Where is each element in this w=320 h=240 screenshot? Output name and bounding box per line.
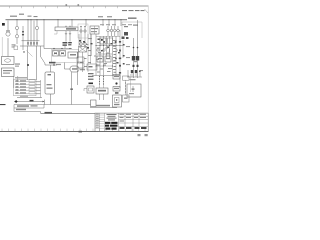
resistor ladder rail bottom — [20, 45, 44, 47]
right column fleck devices — [115, 41, 125, 74]
mid rail wire — [96, 45, 123, 47]
lamp DS0 circle — [6, 20, 10, 36]
cable table outline — [14, 79, 37, 96]
drop wire to panel c — [85, 20, 87, 26]
relay K1 tall box — [45, 72, 55, 94]
TB1 terminal dots — [66, 26, 71, 27]
diode CR1 — [22, 26, 24, 50]
cable list row 5 — [15, 92, 41, 94]
wire into motor — [7, 38, 9, 56]
meter label — [80, 69, 85, 71]
drop wire to terminal strip a — [57, 20, 59, 27]
device stack: tag — [115, 92, 119, 94]
contactor coil A — [53, 51, 59, 57]
conduit corner wire — [41, 100, 45, 114]
bus label text left — [10, 14, 112, 18]
left feeder vertical — [76, 52, 78, 85]
relay K1 coil wire — [50, 65, 52, 105]
trim marks below sheet — [138, 134, 148, 136]
cell texts right — [120, 114, 147, 122]
ladder cross rail upper — [96, 36, 120, 38]
fuse F2 — [110, 26, 113, 36]
terminal block TB0 — [14, 46, 18, 50]
panel riser wires — [81, 26, 85, 48]
bottom border ruler ticks — [2, 129, 145, 132]
fused drop S2 — [69, 31, 71, 42]
wire table vertical stub b — [17, 76, 19, 82]
dark fleck lower right — [117, 62, 119, 64]
drop wires right group — [103, 20, 121, 26]
aux contact box C — [87, 64, 97, 70]
contact CR2 — [97, 49, 117, 53]
stacked pin text CCC — [88, 73, 94, 80]
junction tick right — [70, 89, 73, 90]
title block middle rows — [119, 116, 149, 126]
conduit run labels — [16, 105, 38, 110]
bottom rail label — [45, 112, 53, 114]
aux box — [108, 38, 113, 44]
enclosure content marks — [124, 25, 138, 28]
contactor top wire — [52, 48, 72, 49]
drop wire 2 — [27, 20, 29, 46]
drop wire to lamp DS2 — [35, 20, 38, 46]
device stack: indicator dot — [115, 82, 117, 84]
device stack: selector box — [113, 75, 120, 80]
right riser wire b — [137, 20, 139, 78]
wire table vertical stub a — [13, 76, 15, 88]
shield wire row — [14, 100, 44, 103]
drop wire 4 — [33, 20, 35, 46]
overload block — [68, 52, 78, 58]
ladder speckle flecks — [79, 39, 120, 54]
wire left drop a — [27, 46, 29, 80]
node tag square — [2, 23, 5, 26]
ladder element marks — [27, 42, 37, 45]
control station CS2 box — [127, 84, 141, 97]
revision table entries — [96, 114, 99, 128]
wire label — [49, 62, 56, 64]
panel enclosure outline — [78, 24, 88, 38]
right dashed enclosure — [122, 22, 142, 38]
bus label text right — [128, 17, 137, 19]
pushbutton station risers — [128, 70, 140, 77]
contactor coil B — [60, 51, 66, 57]
riser mid label — [134, 61, 137, 62]
cluster header text — [100, 24, 116, 25]
wire rail to relay K1 — [41, 46, 46, 65]
sheet top border line — [0, 5, 149, 7]
bottom rail of ladder — [92, 75, 120, 77]
bus junction dots — [16, 19, 121, 20]
dark device cluster — [122, 32, 129, 39]
dotted junction strip a — [99, 76, 100, 85]
meter drop wire — [71, 72, 73, 105]
note leader line — [145, 9, 149, 13]
station label — [130, 79, 136, 80]
panel meter circles — [80, 30, 86, 32]
drop wire to lamp DS1 — [15, 20, 18, 44]
cable list row 1 — [15, 80, 41, 82]
sheet bottom border line — [0, 131, 149, 133]
spare wire row — [17, 95, 42, 97]
lamp DS0 cap — [7, 30, 10, 32]
junction strip wires — [100, 76, 104, 89]
TB1 left stub wire — [54, 31, 57, 34]
right enclosure edge wire — [130, 74, 132, 92]
left margin arrow wire — [0, 104, 6, 105]
aux relay box — [87, 86, 94, 93]
junction blob — [27, 64, 29, 66]
meter M box — [70, 66, 79, 72]
right riser wire a — [133, 38, 135, 78]
title block outer — [95, 113, 148, 132]
cable list row 4 — [15, 89, 41, 91]
aux device column box bottom — [123, 95, 130, 102]
local panel box — [113, 95, 122, 107]
drop wire to terminal strip b — [71, 20, 73, 27]
TAC drop wires — [100, 94, 104, 100]
top border zone ticks — [10, 6, 118, 8]
panel riser dots — [80, 26, 85, 27]
scatter labels mid — [80, 38, 116, 73]
title block column dividers — [100, 113, 140, 132]
lower bus wire — [90, 105, 117, 108]
top border zone arrows — [66, 4, 80, 6]
relay coils left pair — [79, 43, 87, 52]
fuse F4 — [117, 26, 120, 36]
revision table rows — [95, 115, 105, 128]
pushbutton rail — [127, 76, 142, 78]
CT box dark — [100, 38, 106, 44]
pushbutton heads — [131, 70, 141, 73]
title text lines — [107, 114, 117, 120]
resistor ladder rail top — [22, 40, 40, 42]
drop wire 3 — [30, 20, 32, 46]
fused drop S1 — [65, 31, 67, 42]
aux device column box top — [123, 76, 130, 80]
lamp DS0 side note — [12, 44, 16, 47]
approval row dark texts — [120, 127, 147, 129]
ladder vertical far right — [122, 40, 124, 58]
terminal strip TB1 — [55, 27, 78, 31]
wire into pin stack — [90, 34, 92, 64]
cable table header — [15, 77, 27, 78]
drawing number dark — [105, 122, 118, 130]
wire through note — [64, 46, 66, 49]
extra ladder verticals — [88, 34, 92, 72]
sheet right border line — [147, 6, 149, 132]
feeder bus L1 wire — [6, 20, 128, 21]
ladder cross rail lower — [96, 65, 113, 67]
timer box B — [105, 56, 111, 62]
schematic bottom rail wire — [41, 112, 96, 114]
relay block K2 — [90, 26, 99, 34]
right riser components — [132, 47, 139, 67]
fuse F1 — [107, 26, 110, 36]
arrow collector wire — [40, 80, 42, 98]
motor M1 box — [2, 57, 15, 65]
aux device column dots — [125, 83, 126, 93]
right device column labels — [113, 40, 116, 73]
starter enclosure — [52, 50, 79, 63]
crossover diagonal wire — [27, 51, 33, 57]
dotted junction strip b — [103, 76, 104, 85]
mid junction dots — [96, 45, 121, 67]
stacked contact box A — [77, 57, 84, 62]
dark bar under pins — [89, 83, 94, 85]
right feeder text labels — [122, 24, 132, 25]
starter label — [56, 64, 61, 65]
conduit run box — [14, 105, 91, 112]
device stack: lower box — [113, 87, 120, 92]
motor M1 label — [15, 63, 20, 66]
ladder verticals mid — [79, 30, 120, 88]
wire starter to meter — [65, 63, 71, 70]
aux device column wire — [125, 80, 127, 95]
aux relay hook wire — [84, 89, 87, 92]
wire from starter down — [45, 63, 57, 66]
TAC meter box — [96, 88, 108, 94]
mid rail wire 2 — [96, 53, 112, 55]
fuse F3 — [114, 26, 117, 36]
control station box — [2, 68, 15, 77]
enclosure dashed edge — [1, 37, 3, 56]
cable list row 2 — [15, 83, 41, 85]
junction box JB — [91, 100, 97, 107]
top-right note strip — [122, 10, 145, 11]
timer box A — [97, 56, 103, 62]
note text block — [63, 42, 72, 46]
drop wire to contactor — [44, 20, 52, 48]
right riser labels — [126, 46, 143, 71]
border accent tick — [79, 131, 83, 133]
cable list row 3 — [15, 86, 41, 88]
wire left drop b — [36, 46, 38, 80]
junction dot — [23, 51, 24, 52]
stacked contact box B — [77, 63, 84, 68]
